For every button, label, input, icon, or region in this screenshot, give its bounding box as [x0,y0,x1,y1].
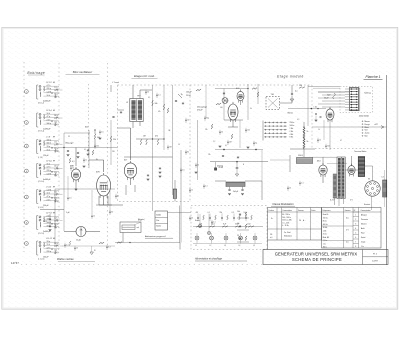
svg-text:0,5: 0,5 [182,170,184,172]
svg-text:5k: 5k [117,196,119,198]
svg-text:Jaune: Jaune [365,133,370,135]
svg-text:30: 30 [111,212,113,214]
svg-text:1 Mc: 1 Mc [290,128,294,130]
svg-text:100 pF: 100 pF [43,256,49,258]
svg-text:850 Ω: 850 Ω [288,113,294,115]
svg-text:2: 2 [355,219,356,221]
svg-text:22k: 22k [299,85,302,87]
svg-text:0,5: 0,5 [232,212,234,214]
svg-text:470 kΩ: 470 kΩ [217,166,224,168]
svg-text:HF: HF [53,161,55,163]
svg-text:550 kc-1,5Mc: 550 kc-1,5Mc [282,220,292,222]
svg-text:(L 7-8): (L 7-8) [38,157,43,159]
svg-text:200 - 550 kc: 200 - 550 kc [282,217,291,219]
svg-text:47k: 47k [196,212,199,214]
svg-text:14737: 14737 [11,262,19,265]
svg-text:Découplage: Découplage [197,107,207,109]
svg-text:47k: 47k [158,111,161,113]
svg-text:0,1: 0,1 [158,95,160,97]
svg-text:L2: L2 [210,245,212,247]
svg-text:L1: L1 [195,245,197,247]
svg-text:0,1: 0,1 [213,222,215,224]
svg-text:1n: 1n [85,160,87,162]
svg-text:1k: 1k [307,131,309,133]
svg-text:560 k: 560 k [47,143,51,145]
svg-text:1k: 1k [319,140,321,142]
svg-text:10k: 10k [237,211,240,213]
svg-text:1 Mc: 1 Mc [323,230,327,232]
svg-text:2x0,1: 2x0,1 [43,221,47,223]
svg-text:15k: 15k [208,154,211,156]
svg-text:(CV 5-6): (CV 5-6) [38,181,44,183]
svg-text:600Ω: 600Ω [156,215,161,217]
svg-text:0,1: 0,1 [301,183,303,185]
svg-text:0,1: 0,1 [72,161,75,163]
svg-text:50: 50 [191,218,193,220]
svg-text:4,7 k: 4,7 k [47,167,51,169]
svg-text:33: 33 [68,136,70,138]
svg-text:2,2: 2,2 [213,141,215,143]
svg-text:CV 3-4: CV 3-4 [46,110,52,112]
svg-text:Secteur: Secteur [364,203,371,206]
svg-text:5k: 5k [250,108,252,110]
svg-text:0,1: 0,1 [205,186,207,188]
svg-text:250 kc: 250 kc [290,122,295,124]
svg-text:47 p: 47 p [47,196,51,198]
svg-text:4,7 k: 4,7 k [47,85,51,87]
svg-text:500 kc: 500 kc [290,125,295,127]
svg-text:4,7 k: 4,7 k [47,248,51,250]
svg-text:100 p: 100 p [54,201,58,203]
svg-text:4: 4 [355,228,356,230]
svg-text:100: 100 [220,107,223,109]
svg-text:1 kc: 1 kc [361,246,364,248]
svg-text:7: 7 [355,241,356,243]
svg-text:5k: 5k [307,141,309,143]
svg-text:20k: 20k [96,146,99,148]
svg-text:80 kc: 80 kc [323,221,327,223]
svg-text:1,5 - 4 Mc: 1,5 - 4 Mc [282,222,289,224]
svg-text:10k: 10k [247,130,250,132]
svg-text:Gamme: Gamme [345,210,351,212]
svg-text:10 k: 10 k [47,95,50,97]
svg-text:30pF: 30pF [327,95,331,97]
svg-text:Commutation: Commutation [361,209,371,212]
svg-text:Vert: Vert [365,129,369,132]
svg-text:4 - 11 Mc: 4 - 11 Mc [282,225,289,227]
svg-text:2x8 µF: 2x8 µF [233,191,238,193]
svg-text:47: 47 [340,140,342,142]
svg-text:560 k: 560 k [47,222,51,224]
svg-text:33 p: 33 p [47,241,51,243]
svg-text:2,2 k: 2,2 k [54,87,58,89]
svg-text:220 p: 220 p [47,251,52,253]
svg-text:1k: 1k [191,190,193,192]
svg-text:0,1: 0,1 [208,212,210,214]
svg-text:25 kc: 25 kc [323,234,327,236]
svg-text:CV 7-8: CV 7-8 [46,213,52,215]
svg-text:100 p: 100 p [54,221,58,223]
svg-text:0,5: 0,5 [346,218,349,220]
svg-text:47 p: 47 p [54,195,57,197]
svg-text:5: 5 [355,232,356,234]
svg-text:10: 10 [187,120,189,122]
svg-text:Blocage: Blocage [66,143,75,145]
svg-text:Haut: Haut [361,231,365,234]
svg-text:25: 25 [289,188,291,190]
svg-text:120 pF: 120 pF [43,155,49,157]
svg-text:Masse: Masse [365,121,370,123]
svg-text:Couleur: Couleur [268,210,274,212]
svg-text:(L 11-12): (L 11-12) [38,259,45,261]
svg-text:2k: 2k [72,168,74,170]
svg-text:50k: 50k [327,146,330,148]
svg-text:560 k: 560 k [54,115,58,117]
svg-text:150 kc: 150 kc [323,217,328,219]
svg-text:1,2 M: 1,2 M [47,92,52,94]
svg-text:L5: L5 [253,245,255,247]
svg-text:Blanc: Blanc [365,127,370,129]
svg-text:Alimentation et chauffage: Alimentation et chauffage [194,258,223,261]
svg-text:0,1: 0,1 [66,245,68,247]
svg-text:2 Mc: 2 Mc [290,131,294,133]
svg-text:1,2 M: 1,2 M [47,189,52,191]
svg-text:47 p: 47 p [47,116,51,118]
svg-text:25: 25 [76,248,78,250]
svg-text:1,2 M: 1,2 M [54,169,59,171]
svg-text:3: 3 [355,223,356,225]
svg-text:8 µF: 8 µF [223,223,226,225]
svg-text:4,7: 4,7 [225,145,227,147]
svg-text:Etage modulé: Etage modulé [277,74,304,78]
svg-text:7,5 kc: 7,5 kc [323,240,328,242]
svg-text:250 pF: 250 pF [43,205,49,207]
svg-text:25k: 25k [113,139,116,141]
svg-text:(CV 7-8): (CV 7-8) [38,233,44,235]
svg-text:(CV 3-4): (CV 3-4) [38,131,44,133]
svg-text:HF: HF [53,137,55,139]
svg-text:Classe Modulation: Classe Modulation [272,202,294,206]
svg-text:CV 1-2: CV 1-2 [46,82,52,84]
svg-text:25: 25 [237,235,239,237]
svg-text:33 p: 33 p [47,146,51,148]
svg-text:220 p: 220 p [47,170,52,172]
svg-text:1,2 M: 1,2 M [47,173,52,175]
svg-text:Bloc oscillateur: Bloc oscillateur [73,70,93,74]
svg-text:1 kc: 1 kc [323,243,326,245]
svg-text:4x460 pF: 4x460 pF [43,179,51,181]
svg-text:6X4: 6X4 [317,161,320,163]
svg-text:14737: 14737 [372,261,378,263]
svg-text:400Ω 40mA: 400Ω 40mA [359,115,369,118]
svg-text:8: 8 [355,246,356,248]
svg-text:Etage H.F. mod.: Etage H.F. mod. [134,74,155,78]
svg-text:à 4: à 4 [270,237,272,239]
svg-text:100 p: 100 p [54,90,58,92]
svg-text:50: 50 [221,132,223,134]
svg-text:Tension filtrée: Tension filtrée [354,150,367,153]
svg-text:Pot.: Pot. [156,219,160,222]
svg-text:6,3: 6,3 [108,247,110,249]
svg-text:4: 4 [243,164,244,166]
svg-text:220 p: 220 p [47,88,52,90]
svg-text:1k: 1k [318,129,320,131]
svg-text:HF: HF [53,187,55,189]
svg-text:Gamme: Gamme [298,210,304,212]
svg-text:30 Mc: 30 Mc [323,227,328,229]
svg-text:10: 10 [178,144,180,146]
svg-text:5p: 5p [255,143,257,145]
svg-text:L 7-8: L 7-8 [46,137,50,139]
svg-text:550 Ω: 550 Ω [298,155,303,157]
svg-text:CV 5-6: CV 5-6 [46,161,52,163]
svg-text:6: 6 [355,237,356,239]
svg-text:Ter. Final: Ter. Final [284,232,291,234]
svg-text:50p: 50p [206,118,209,120]
svg-text:2x460 pF: 2x460 pF [43,231,51,233]
svg-text:0,5: 0,5 [101,132,103,134]
svg-text:24: 24 [299,220,301,222]
svg-text:Impul.: Impul. [361,241,366,243]
svg-text:8 Mc: 8 Mc [290,137,294,139]
svg-text:L5: L5 [126,102,128,104]
svg-text:10k: 10k [155,103,158,105]
svg-text:100 pF: 100 pF [186,92,192,94]
svg-text:Platine montée: Platine montée [57,258,74,261]
svg-text:33 p: 33 p [54,246,57,248]
svg-text:Atténuateur progressif: Atténuateur progressif [144,235,166,238]
svg-text:Marche: Marche [361,222,367,225]
svg-text:10 k: 10 k [54,191,57,193]
svg-text:(L 9-10): (L 9-10) [38,207,44,209]
svg-text:Fréquence: Fréquence [323,209,331,212]
svg-text:Rouge: Rouge [365,124,370,126]
svg-text:1k: 1k [93,216,95,218]
svg-text:400 c: 400 c [323,247,327,249]
svg-text:L3: L3 [224,245,226,247]
svg-text:Passante: Passante [361,218,368,221]
svg-text:Bobinage: Bobinage [27,71,45,75]
svg-text:Tableau: Tableau [364,93,372,95]
svg-text:15 k: 15 k [47,163,50,165]
svg-text:6,3: 6,3 [382,177,384,179]
svg-text:L 9-10: L 9-10 [46,187,51,189]
svg-text:Sortie: Sortie [195,219,200,222]
svg-text:L4: L4 [239,245,241,247]
svg-text:0,5: 0,5 [237,223,239,225]
svg-text:4,7 k: 4,7 k [54,145,58,147]
svg-text:2,2 k: 2,2 k [54,217,58,219]
svg-text:T.M.: T.M. [271,94,275,96]
svg-text:15 k: 15 k [54,141,57,143]
svg-text:Attaque: Attaque [361,213,367,216]
svg-text:2,2 k: 2,2 k [47,120,51,122]
svg-text:20: 20 [197,165,199,167]
svg-text:25k: 25k [205,129,208,131]
svg-text:220 p: 220 p [54,165,58,167]
svg-text:100 p: 100 p [47,123,52,125]
svg-text:0,1: 0,1 [84,149,86,151]
svg-text:470 pF: 470 pF [197,110,203,112]
svg-text:400 kc: 400 kc [323,224,328,226]
svg-text:4 Mc: 4 Mc [290,134,294,136]
svg-text:t° 1 mod: t° 1 mod [112,81,119,84]
svg-text:15 k: 15 k [47,244,50,246]
svg-text:25k: 25k [220,212,223,214]
svg-text:Beat.Fr.: Beat.Fr. [323,213,329,216]
svg-text:Noir: Noir [365,136,369,138]
svg-text:220: 220 [112,151,115,153]
svg-text:0,1: 0,1 [148,97,150,99]
svg-text:GENERATEUR UNIVERSEL SRM ME: GENERATEUR UNIVERSEL SRM METRIX [275,251,358,256]
svg-text:33 p: 33 p [54,118,57,120]
svg-text:(CV 1-2): (CV 1-2) [38,103,44,105]
svg-text:N°: N° [354,210,356,212]
svg-text:10 k: 10 k [47,193,50,195]
svg-text:2,2 k: 2,2 k [47,199,51,201]
svg-text:5k: 5k [147,92,149,94]
svg-text:2,5: 2,5 [346,242,349,244]
svg-text:V5: V5 [368,179,370,181]
svg-text:Mod. BF: Mod. BF [323,237,329,239]
svg-text:L 11-12: L 11-12 [46,238,52,240]
svg-text:Sortie: Sortie [156,225,161,228]
svg-text:10 k: 10 k [47,113,50,115]
svg-text:100 p: 100 p [47,139,52,141]
svg-text:HF: HF [53,82,55,84]
svg-text:2x0,1: 2x0,1 [211,223,215,225]
svg-text:80 - 200 kc: 80 - 200 kc [282,214,290,216]
svg-text:Arrêt: Arrêt [361,227,365,230]
svg-text:4x460 pF: 4x460 pF [43,100,51,102]
svg-text:8k: 8k [96,159,98,161]
svg-text:25 kΩ: 25 kΩ [186,95,191,97]
svg-text:0,1: 0,1 [295,91,298,93]
svg-text:0,5: 0,5 [297,119,299,121]
svg-text:0,5: 0,5 [69,198,71,200]
svg-text:HF: HF [53,110,55,112]
svg-text:1: 1 [355,214,356,216]
svg-text:2x490 pF: 2x490 pF [43,128,51,130]
svg-text:SCHEMA DE PRINCIPE: SCHEMA DE PRINCIPE [292,257,342,262]
svg-text:Planche 1: Planche 1 [365,75,380,79]
svg-text:560 k: 560 k [54,243,58,245]
svg-text:Sortie: Sortie [361,236,365,239]
svg-text:47k: 47k [155,136,158,138]
svg-text:15 k: 15 k [47,149,50,151]
svg-text:8k: 8k [187,152,189,154]
